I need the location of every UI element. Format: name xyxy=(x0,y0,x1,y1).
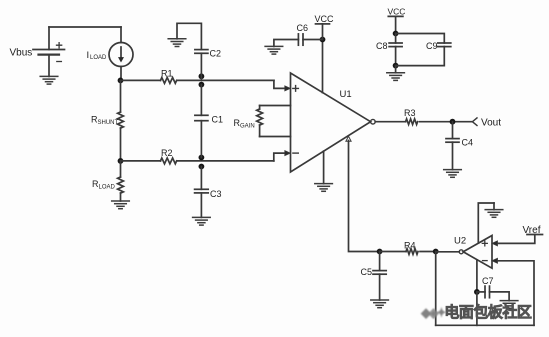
resistor R3 xyxy=(406,119,418,125)
wire current source top xyxy=(120,27,122,43)
wire feedback bottom xyxy=(436,324,534,326)
capacitor C3 xyxy=(195,189,209,193)
resistor RSHUNT xyxy=(118,80,124,160)
wire C8 to ground xyxy=(395,66,397,73)
wire C7 node down xyxy=(476,292,478,325)
ground C4 xyxy=(444,170,462,178)
wire R4 node to U2 output xyxy=(436,251,460,253)
wire U1 Vminus pin xyxy=(323,151,325,183)
ground C2 loop xyxy=(168,39,186,47)
svg-text:R2: R2 xyxy=(161,148,173,158)
capacitor C1 xyxy=(195,115,208,120)
wire step to U1 plus input xyxy=(274,80,285,88)
svg-text:C4: C4 xyxy=(462,138,474,148)
ground C3 xyxy=(193,217,211,225)
node VCC C6 junction xyxy=(320,37,326,43)
power Vref bar xyxy=(527,234,543,236)
node C1 upper junction xyxy=(199,155,205,161)
port Vout chevron xyxy=(472,118,477,126)
svg-text:I: I xyxy=(87,50,90,61)
wire C9 bottom branch xyxy=(396,47,445,66)
wire VCC node to C6 xyxy=(303,39,323,41)
wire R2 line left xyxy=(121,160,161,162)
pin arrow U2 minus xyxy=(492,258,498,263)
svg-text:C9: C9 xyxy=(426,41,438,51)
svg-text:C3: C3 xyxy=(210,189,222,199)
wire C2 to R1 node xyxy=(200,53,202,80)
svg-text:U1: U1 xyxy=(340,89,352,100)
resistor RLOAD xyxy=(118,161,124,201)
svg-text:VCC: VCC xyxy=(315,14,335,24)
svg-text:Vout: Vout xyxy=(481,118,501,129)
resistor R4 xyxy=(406,249,418,255)
node R2 left junction xyxy=(118,158,124,164)
pin arrow U1 REF xyxy=(346,136,351,141)
op-amp U1 xyxy=(291,73,376,172)
label RGAIN xyxy=(234,118,255,130)
ground U2 top xyxy=(493,203,495,210)
resistor R2 xyxy=(161,158,177,164)
wire battery bottom to ground xyxy=(48,55,50,77)
wire U1 REF to R4 node xyxy=(349,141,380,252)
wire node to C3 xyxy=(200,167,202,190)
wire U1 VCC pin xyxy=(322,40,324,93)
wire R4 left xyxy=(380,251,406,253)
power VCC C8 xyxy=(388,16,403,33)
wire current source bottom xyxy=(120,67,122,81)
wire U2 minus feedback right xyxy=(498,261,535,326)
svg-text:C8: C8 xyxy=(376,41,388,51)
capacitor C6 xyxy=(298,34,303,45)
wire C1 to R2 node xyxy=(200,121,202,158)
capacitor C2 xyxy=(195,50,208,54)
svg-text:U2: U2 xyxy=(454,236,466,247)
label RLOAD xyxy=(92,179,116,191)
capacitor C4 xyxy=(446,122,459,170)
label RSHUNT xyxy=(91,115,119,127)
svg-text:LOAD: LOAD xyxy=(99,185,116,191)
wire top rail xyxy=(49,26,121,28)
wire R4 right xyxy=(420,251,436,253)
wire node to C1 xyxy=(200,85,202,116)
node C1 lower junction xyxy=(199,164,205,170)
node C8 top junction xyxy=(393,31,399,37)
wire battery top to rail xyxy=(48,27,50,50)
pin arrow U2 plus xyxy=(492,241,498,246)
wire R2 line right xyxy=(177,160,274,162)
svg-text:LOAD: LOAD xyxy=(90,55,107,61)
wire RGAIN bottom to U1 xyxy=(260,136,291,138)
current source ILOAD xyxy=(109,43,133,67)
node R4 left junction xyxy=(377,249,383,255)
wire step to U1 minus input xyxy=(274,153,285,161)
svg-text:VCC: VCC xyxy=(388,7,406,17)
wire U2 Vplus pin xyxy=(478,203,494,243)
ground RLOAD xyxy=(112,201,130,209)
wire R3 to Vout xyxy=(420,121,473,123)
wire RGAIN top to U1 xyxy=(260,105,291,107)
capacitor C9 xyxy=(438,43,451,47)
node Vout junction xyxy=(450,119,456,125)
wire C6 to ground xyxy=(274,40,299,47)
wire C3 to ground xyxy=(200,193,202,218)
svg-text:GAIN: GAIN xyxy=(240,124,255,130)
svg-text:C7: C7 xyxy=(482,276,494,286)
wire C9 top branch xyxy=(396,34,445,44)
wire feedback left xyxy=(435,252,437,326)
svg-text:C2: C2 xyxy=(210,49,222,59)
wire C2 ground loop xyxy=(177,23,201,49)
resistor RGAIN xyxy=(257,106,263,137)
capacitor C8 xyxy=(389,34,402,66)
ground C6 xyxy=(265,46,283,54)
ground C8 xyxy=(387,73,405,81)
power VCC U1 xyxy=(316,24,330,40)
capacitor C7 xyxy=(477,286,509,301)
ground C7 xyxy=(500,301,518,309)
wire U1 output xyxy=(375,121,405,123)
ground battery xyxy=(40,76,58,84)
capacitor C5 xyxy=(373,252,386,301)
pin arrow U1 plus xyxy=(285,86,291,91)
svg-text:Vbus: Vbus xyxy=(10,48,33,59)
ground U1 xyxy=(315,184,333,192)
watermark xyxy=(421,301,549,317)
ground C5 xyxy=(371,300,389,308)
label ILOAD xyxy=(87,50,108,61)
svg-text:SHUNT: SHUNT xyxy=(98,120,119,126)
wire Vref to U2 plus xyxy=(498,235,535,244)
battery Vbus xyxy=(33,43,65,62)
node C2 lower junction xyxy=(199,82,205,88)
pin arrow U1 minus xyxy=(285,151,291,156)
node R1 left junction xyxy=(118,78,124,84)
svg-text:R1: R1 xyxy=(161,69,173,79)
svg-text:C1: C1 xyxy=(212,115,224,125)
svg-text:R3: R3 xyxy=(404,108,416,118)
svg-text:Vref: Vref xyxy=(523,225,541,236)
wire R1 line right xyxy=(177,79,274,81)
op-amp U2 xyxy=(459,236,492,269)
node C2 upper junction xyxy=(199,73,205,79)
node R4 right junction xyxy=(433,249,439,255)
wire R1 line left xyxy=(121,79,161,81)
node C7 junction xyxy=(474,289,480,295)
node C8 bottom junction xyxy=(393,63,399,69)
wire U2 Vminus pin xyxy=(476,260,478,292)
svg-text:C6: C6 xyxy=(297,23,309,33)
svg-text:R4: R4 xyxy=(404,241,416,251)
resistor R1 xyxy=(161,78,177,84)
svg-text:C5: C5 xyxy=(361,267,373,277)
